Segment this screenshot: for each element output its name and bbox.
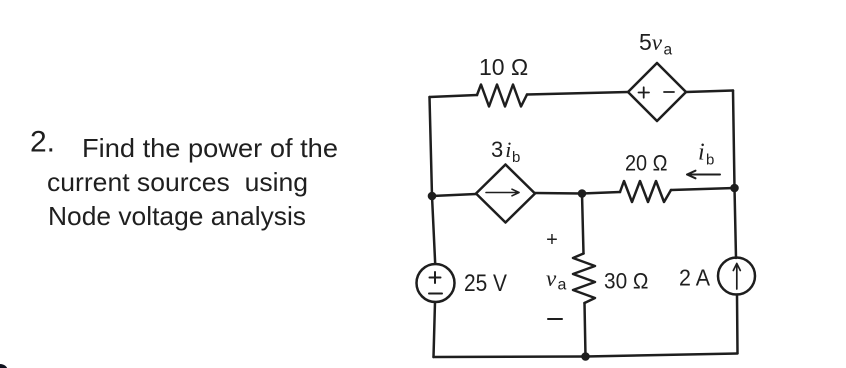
ink blot bottom left corner — [0, 364, 8, 368]
wire top right segment — [686, 91, 733, 93]
svg-text:Node voltage analysis: Node voltage analysis — [48, 201, 306, 231]
polarity plus inside 5va source — [639, 87, 650, 97]
wire middle vertical lower — [585, 303, 586, 357]
wire bottom left segment — [434, 355, 586, 358]
wire top-left segment — [430, 95, 478, 97]
resistor R3 30 ohm zigzag — [573, 254, 595, 304]
resistor R1 10 ohm zigzag — [477, 85, 527, 107]
arrow inside 3ib source — [486, 189, 519, 196]
wire left upper vertical — [430, 97, 433, 196]
wire left lower vertical — [434, 302, 436, 357]
node A junction dot left — [428, 192, 437, 201]
polarity minus inside 5va source — [664, 91, 674, 93]
svg-text:2 A: 2 A — [679, 265, 711, 291]
svg-text:Find the power of the: Find the power of the — [82, 133, 338, 163]
wire left middle vertical — [432, 196, 435, 264]
arrow inside 2A source pointing up — [733, 264, 740, 290]
svg-text:v: v — [546, 266, 557, 291]
dependent current source 3ib diamond — [476, 165, 535, 223]
wire bottom right segment — [586, 354, 738, 357]
svg-text:3i: 3i — [491, 137, 511, 162]
svg-text:i: i — [698, 140, 705, 166]
node C junction dot right — [730, 184, 739, 193]
resistor R2 20 ohm zigzag — [620, 181, 671, 202]
svg-text:10 Ω: 10 Ω — [479, 54, 528, 80]
svg-text:a: a — [664, 42, 673, 59]
current arrow ib pointing left — [687, 171, 720, 179]
svg-text:b: b — [706, 152, 714, 169]
wire middle row rightmost segment — [671, 188, 735, 190]
current source I1 2A circle — [718, 258, 755, 295]
dependent voltage source 5va diamond — [628, 63, 686, 121]
wire middle vertical upper — [582, 194, 584, 254]
polarity plus inside 25V source — [430, 272, 441, 283]
wire right upper vertical — [733, 91, 735, 189]
wire top middle segment — [527, 92, 628, 95]
wire middle row center segment — [535, 192, 582, 195]
node B junction dot middle — [578, 189, 587, 198]
svg-text:current sources using: current sources using — [47, 167, 308, 197]
wire right lower vertical — [736, 295, 739, 354]
node D junction dot bottom — [581, 352, 590, 361]
wire middle row left segment — [432, 194, 476, 196]
svg-text:2.: 2. — [30, 126, 55, 159]
wire right middle vertical to 2A source — [735, 188, 737, 258]
svg-text:30 Ω: 30 Ω — [604, 269, 649, 294]
svg-text:a: a — [558, 277, 567, 294]
wire middle row right of node — [582, 192, 620, 194]
voltage source V1 25V circle — [417, 264, 455, 302]
polarity minus below va — [548, 318, 562, 320]
svg-text:20 Ω: 20 Ω — [625, 151, 668, 176]
polarity minus inside 25V source — [429, 293, 442, 295]
svg-text:25 V: 25 V — [464, 270, 507, 297]
svg-text:5v: 5v — [639, 29, 663, 55]
svg-text:+: + — [546, 229, 558, 251]
svg-text:b: b — [512, 149, 520, 166]
